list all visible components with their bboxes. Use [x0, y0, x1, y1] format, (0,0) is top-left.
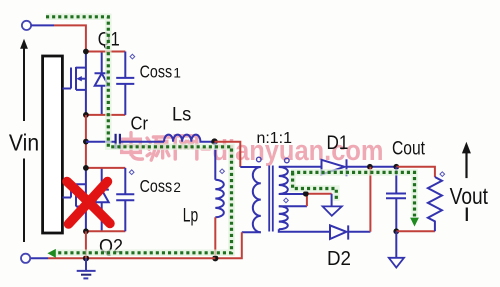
svg-text:Lp: Lp: [183, 205, 199, 227]
node Q2 drain: [83, 165, 89, 171]
ground center tap: [323, 206, 342, 215]
arrow current secondary: [410, 218, 419, 227]
arrow Vin direction: [20, 39, 28, 242]
phase dot primary: [257, 157, 262, 162]
polarity mark Coss2: [129, 170, 134, 175]
svg-text:Cr: Cr: [131, 113, 149, 134]
svg-text:Coss: Coss: [140, 176, 173, 196]
defect mark X over Q2: [67, 182, 110, 225]
transformer secondary lower: [279, 206, 288, 229]
svg-text:D2: D2: [327, 248, 351, 270]
current path primary halo: [46, 17, 232, 253]
arrow Vout up: [462, 142, 471, 178]
current path secondary return: [293, 172, 337, 201]
ground primary: [77, 258, 96, 278]
wire primary top stub: [240, 166, 260, 168]
arrow current primary: [47, 249, 55, 258]
polarity mark Lp: [220, 169, 225, 174]
svg-text:Vout: Vout: [450, 183, 489, 209]
ground output: [389, 231, 404, 267]
wire primary bottom: [242, 231, 261, 233]
svg-text:n:1:1: n:1:1: [257, 130, 293, 147]
phase dot secondary upper: [285, 158, 290, 163]
svg-text:2: 2: [173, 180, 181, 195]
polarity mark Vout: [440, 172, 445, 177]
watermark 电源网 - dianyuan.com: [122, 133, 384, 167]
current path secondary main halo: [291, 172, 415, 216]
terminal input bottom: [21, 254, 30, 263]
phase mark secondary lower: [284, 198, 289, 203]
capacitor Coss2: [116, 168, 134, 231]
wire center tap upper: [279, 193, 306, 195]
node Cr tap: [83, 139, 89, 145]
current path secondary return halo: [293, 172, 337, 201]
wire to Cr: [86, 141, 115, 143]
transformer T1 primary: [253, 167, 261, 232]
node Lp return: [212, 255, 218, 261]
node Cout bottom: [393, 228, 399, 234]
wire Lp bottom lead: [214, 217, 216, 258]
current path secondary main: [291, 172, 415, 216]
transformer secondary upper: [279, 167, 288, 194]
svg-text:Cout: Cout: [392, 138, 426, 159]
wire D2 cathode up: [369, 167, 371, 232]
wire Q2 cell rails: [86, 168, 125, 231]
wire Q2 source to rail: [85, 231, 87, 258]
capacitor Cout: [386, 167, 406, 232]
polarity mark Coss1: [130, 54, 135, 59]
wire Lp top lead: [214, 142, 216, 180]
terminal input top: [22, 21, 31, 30]
node Q1 drain: [83, 49, 89, 55]
node resonant: [211, 138, 218, 145]
diode D2: [330, 225, 370, 239]
svg-text:Ls: Ls: [172, 104, 192, 126]
wire primary return: [215, 232, 242, 258]
wire secondary top rail: [279, 166, 322, 168]
line Vout bottom: [466, 208, 468, 222]
wire bottom rail: [30, 257, 215, 259]
resistor Vout load: [428, 177, 442, 231]
inductor Ls: [164, 135, 214, 142]
wire input top: [31, 25, 86, 51]
wire to load: [396, 167, 435, 177]
transistor Q2: [63, 168, 109, 231]
svg-text:Vin: Vin: [9, 130, 39, 156]
wire Cr to Ls: [121, 141, 164, 143]
transistor Q1: [63, 52, 109, 115]
wire D2 anode: [279, 229, 330, 232]
svg-text:dianyuan.com: dianyuan.com: [213, 135, 384, 167]
svg-text:Coss: Coss: [140, 61, 173, 81]
transformer core: [269, 166, 273, 232]
wire mid rail: [85, 115, 87, 168]
node primary ground: [83, 255, 89, 261]
svg-text:1: 1: [173, 65, 181, 80]
node rectifier out: [367, 164, 373, 170]
wire output bottom: [396, 230, 435, 232]
node Q2 source: [83, 228, 89, 234]
current path primary: [46, 17, 232, 253]
node Cout top: [393, 164, 399, 170]
source Vin bar: [43, 56, 63, 233]
diode D1: [322, 159, 397, 176]
svg-text:D1: D1: [327, 133, 349, 154]
node Q1 source: [83, 112, 89, 118]
capacitor Cr: [116, 134, 120, 149]
wire Q1 cell rails: [86, 52, 125, 115]
wire primary feed: [215, 142, 241, 167]
node center tap: [303, 191, 309, 197]
capacitor Coss1: [116, 52, 134, 115]
inductor Lp: [215, 180, 224, 218]
wire center tap lower: [279, 194, 332, 207]
